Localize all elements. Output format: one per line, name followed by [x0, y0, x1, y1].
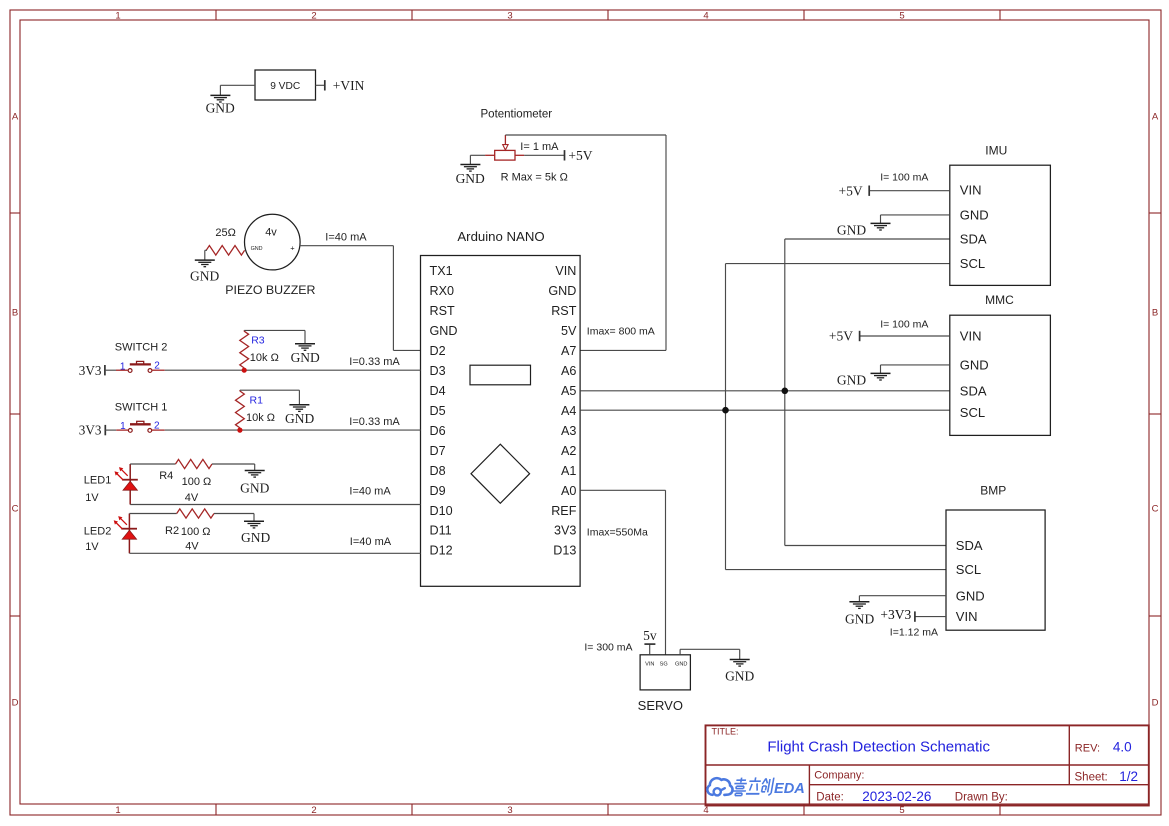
svg-text:10k Ω: 10k Ω [246, 412, 275, 424]
svg-text:RST: RST [430, 304, 455, 318]
REV label and value 4.0 [1075, 740, 1132, 755]
svg-text:+5V: +5V [829, 329, 853, 344]
svg-text:IMU: IMU [985, 143, 1007, 157]
resistor R4 100Ω [176, 459, 213, 468]
value 100 Ω (R4) [182, 476, 212, 488]
svg-text:1/2: 1/2 [1119, 769, 1138, 784]
U1 right pin names VIN-D13 [548, 264, 577, 558]
U1 inner diamond mark [471, 444, 530, 503]
svg-text:4.0: 4.0 [1113, 740, 1132, 755]
value 4V (R4) [185, 492, 199, 504]
svg-text:VIN: VIN [555, 264, 576, 278]
svg-text:100 Ω: 100 Ω [181, 526, 211, 538]
svg-text:GND: GND [960, 207, 989, 222]
svg-text:SERVO: SERVO [638, 698, 683, 713]
svg-text:D6: D6 [430, 424, 446, 438]
Date label and value 2023-02-26 [816, 789, 931, 804]
svg-text:PIEZO BUZZER: PIEZO BUZZER [225, 283, 315, 297]
wire switch 1 to Arduino D6 [165, 429, 421, 431]
svg-text:A0: A0 [561, 484, 576, 498]
svg-text:3: 3 [507, 805, 512, 816]
svg-text:Company:: Company: [814, 770, 864, 782]
svg-text:4: 4 [703, 805, 708, 816]
svg-text:MMC: MMC [985, 293, 1014, 307]
wire IMU GND to ground [881, 215, 950, 224]
net flag +5V (IMU) [839, 183, 870, 198]
svg-text:R4: R4 [159, 470, 173, 482]
Company label [814, 770, 864, 782]
svg-text:1: 1 [120, 421, 126, 432]
resistor R3 10k [240, 330, 249, 368]
Drawn By label [955, 792, 1008, 804]
net flag +5V (MMC) [829, 329, 860, 344]
net flag +3V3 [880, 607, 915, 622]
wire potentiometer left to ground [470, 155, 485, 164]
U4 pin names SDA SCL GND VIN [956, 538, 985, 624]
svg-text:+VIN: +VIN [333, 78, 365, 93]
svg-text:4: 4 [703, 11, 708, 22]
module U2 IMU body [950, 165, 1051, 285]
svg-text:A5: A5 [561, 384, 576, 398]
svg-text:GND: GND [206, 100, 235, 115]
svg-text:VIN: VIN [960, 329, 982, 344]
wire potentiometer wiper to Arduino A7 [505, 135, 666, 350]
designator R2 [165, 525, 179, 537]
wire R1 top to ground [240, 390, 300, 405]
svg-text:D12: D12 [430, 544, 453, 558]
wire Arduino A5 to MMC SDA [580, 390, 950, 392]
svg-text:GND: GND [725, 669, 754, 684]
value I= 300 mA (servo) [584, 641, 632, 653]
wire battery plus to +VIN flag [316, 84, 325, 86]
svg-text:9 VDC: 9 VDC [270, 81, 300, 92]
label MMC [985, 293, 1014, 307]
value 10k Ω (R3) [250, 352, 279, 364]
svg-text:I=0.33 mA: I=0.33 mA [349, 416, 400, 428]
svg-text:C: C [12, 503, 19, 514]
wire SDA bus to IMU and BMP [785, 239, 950, 546]
svg-text:Imax= 800 mA: Imax= 800 mA [587, 326, 655, 338]
ground GND (potentiometer) [456, 165, 485, 187]
value 1V (LED2) [85, 541, 99, 553]
svg-text:A7: A7 [561, 344, 576, 358]
svg-text:5v: 5v [643, 628, 657, 643]
module M1 SERVO body [640, 655, 690, 690]
value 4V (R2) [185, 541, 199, 553]
svg-text:SCL: SCL [960, 256, 985, 271]
svg-text:Arduino NANO: Arduino NANO [457, 229, 544, 244]
value R Max = 5k Ω [501, 172, 568, 184]
svg-text:5V: 5V [561, 324, 577, 338]
ground GND (buzzer) [190, 260, 219, 283]
svg-text:D7: D7 [430, 444, 446, 458]
svg-text:D13: D13 [553, 544, 576, 558]
value I= 100 mA (MMC) [880, 318, 928, 330]
svg-text:B: B [12, 307, 18, 318]
ground GND (R1) [285, 405, 314, 426]
svg-text:D: D [1152, 697, 1159, 708]
value I=1.12 mA (BMP) [890, 626, 938, 638]
svg-text:R1: R1 [250, 394, 264, 406]
wire R3 top to ground [244, 330, 305, 343]
svg-text:A3: A3 [561, 424, 576, 438]
designator R4 [159, 470, 173, 482]
svg-text:Imax=550Ma: Imax=550Ma [587, 527, 648, 539]
svg-text:R Max = 5k Ω: R Max = 5k Ω [501, 172, 568, 184]
label Potentiometer [481, 109, 553, 121]
svg-text:2: 2 [311, 11, 316, 22]
label SWITCH 1 [115, 401, 168, 413]
wire BMP GND to ground [859, 596, 946, 602]
svg-text:2: 2 [311, 805, 316, 816]
S2 pin numbers 1 2 [120, 361, 160, 373]
wire LED1 cathode to Arduino D9 [130, 504, 420, 506]
svg-text:25Ω: 25Ω [215, 227, 235, 239]
svg-text:GND: GND [251, 246, 263, 252]
net flag 5v (servo) [643, 628, 657, 644]
svg-text:+5V: +5V [568, 148, 592, 163]
battery B1 9 VDC [255, 70, 316, 100]
svg-text:100 Ω: 100 Ω [182, 476, 212, 488]
EasyEDA logo text [732, 777, 805, 797]
svg-text:R2: R2 [165, 525, 179, 537]
wire buzzer plus to Arduino D2 [300, 246, 421, 351]
svg-text:GND: GND [845, 612, 874, 627]
value Imax= 800 mA [587, 326, 655, 338]
svg-text:I= 100 mA: I= 100 mA [880, 318, 928, 330]
wire buzzer resistor to ground [205, 250, 207, 260]
module U3 MMC body [950, 315, 1051, 435]
svg-text:3: 3 [507, 11, 512, 22]
title block TITLE label [712, 727, 739, 737]
potentiometer RP1 body [485, 135, 524, 160]
svg-text:SCL: SCL [960, 405, 985, 420]
svg-text:D2: D2 [430, 344, 446, 358]
designator R1 [250, 394, 264, 406]
svg-text:TITLE:: TITLE: [712, 727, 739, 737]
wire +5V to MMC VIN [860, 335, 950, 337]
net flag +5V (potentiometer) [565, 148, 593, 163]
svg-text:GND: GND [456, 171, 485, 186]
svg-text:A1: A1 [561, 464, 576, 478]
label IMU [985, 143, 1007, 157]
wire R4 to ground [212, 464, 255, 471]
svg-text:SG: SG [660, 661, 668, 667]
svg-text:A4: A4 [561, 404, 576, 418]
svg-text:4V: 4V [185, 541, 199, 553]
svg-text:GND: GND [190, 269, 219, 284]
svg-text:Flight Crash Detection Schemat: Flight Crash Detection Schematic [767, 739, 990, 756]
svg-text:GND: GND [675, 661, 687, 667]
svg-text:GND: GND [430, 324, 458, 338]
resistor 25Ω (buzzer) [206, 246, 244, 256]
U3 pin names VIN GND SDA SCL [960, 329, 989, 421]
svg-text:5: 5 [899, 11, 904, 22]
svg-text:GND: GND [291, 350, 320, 365]
svg-text:1V: 1V [85, 541, 99, 553]
svg-text:Potentiometer: Potentiometer [481, 109, 553, 121]
svg-text:LED2: LED2 [84, 526, 112, 538]
svg-text:SWITCH 2: SWITCH 2 [115, 341, 168, 353]
svg-text:A: A [1152, 111, 1159, 122]
svg-text:I=0.33 mA: I=0.33 mA [349, 356, 400, 368]
value 25Ω [215, 227, 235, 239]
svg-text:GND: GND [956, 588, 985, 603]
label Arduino NANO [457, 229, 544, 244]
svg-text:4V: 4V [185, 492, 199, 504]
value I= 1 mA [520, 141, 559, 153]
svg-text:+5V: +5V [839, 183, 863, 198]
junction node R3-D3 [242, 368, 247, 373]
svg-text:GND: GND [548, 284, 576, 298]
led LED1 [115, 464, 138, 505]
label LED2 [84, 526, 112, 538]
svg-text:REV:: REV: [1075, 742, 1100, 754]
svg-text:C: C [1152, 503, 1159, 514]
svg-text:GND: GND [285, 411, 314, 426]
svg-text:SDA: SDA [960, 232, 987, 247]
ground GND (MMC) [837, 372, 891, 387]
svg-text:SCL: SCL [956, 562, 981, 577]
svg-text:5: 5 [899, 805, 904, 816]
svg-text:3V3: 3V3 [79, 423, 102, 438]
ground GND (servo) [725, 660, 754, 684]
svg-text:+3V3: +3V3 [880, 607, 911, 622]
svg-text:I=1.12 mA: I=1.12 mA [890, 626, 938, 638]
svg-text:10k Ω: 10k Ω [250, 352, 279, 364]
ground GND (R2) [241, 521, 270, 545]
value 1V (LED1) [85, 492, 99, 504]
svg-text:GND: GND [837, 222, 866, 237]
ground GND (R3) [291, 344, 320, 365]
value Imax=550Ma [587, 527, 648, 539]
svg-text:EDA: EDA [774, 781, 805, 797]
wire LED2 anode to R2 [129, 513, 176, 515]
svg-text:A6: A6 [561, 364, 576, 378]
svg-text:SDA: SDA [956, 538, 983, 553]
svg-text:I=40 mA: I=40 mA [325, 231, 367, 243]
designator R3 [251, 335, 265, 347]
title text Flight Crash Detection Schematic [767, 739, 990, 756]
U1 inner rectangle mark [470, 365, 531, 385]
wire LED1 anode to R4 [130, 463, 175, 465]
junction node SDA (A5) [782, 388, 789, 395]
svg-text:I= 100 mA: I= 100 mA [880, 172, 928, 184]
wire servo GND to ground [680, 649, 740, 659]
svg-text:BMP: BMP [980, 484, 1006, 498]
svg-text:D8: D8 [430, 464, 446, 478]
S1 pin numbers 1 2 [120, 421, 160, 433]
ground GND (BMP) [845, 602, 874, 627]
net flag 3V3 (switch 1) [79, 423, 106, 438]
svg-text:B: B [1152, 307, 1158, 318]
svg-text:D: D [12, 697, 19, 708]
piezo buzzer LS1 [244, 214, 300, 270]
ground GND (R4) [240, 471, 269, 496]
EasyEDA logo cloud [707, 778, 732, 795]
label LED1 [84, 474, 112, 486]
title block frame [706, 725, 1149, 805]
value I=40 mA (buzzer) [325, 231, 367, 243]
value 100 Ω (R2) [181, 526, 211, 538]
svg-text:I=40 mA: I=40 mA [350, 536, 392, 548]
value I=40 mA (LED1) [349, 485, 391, 497]
resistor R2 100Ω [177, 509, 214, 518]
label BMP [980, 484, 1006, 498]
svg-text:I=40 mA: I=40 mA [349, 485, 391, 497]
svg-text:4v: 4v [265, 226, 277, 238]
U1 left pin names TX1-D12 [430, 264, 458, 558]
svg-text:SDA: SDA [960, 383, 987, 398]
junction node SCL (A4) [722, 407, 729, 414]
svg-text:A2: A2 [561, 444, 576, 458]
wire R2 to ground [214, 514, 254, 522]
svg-text:R3: R3 [251, 335, 265, 347]
ground GND (IMU) [837, 222, 891, 237]
wire MMC GND to ground [881, 365, 950, 374]
module U4 BMP body [946, 510, 1045, 630]
svg-text:RST: RST [551, 304, 576, 318]
svg-text:1V: 1V [85, 492, 99, 504]
svg-text:1: 1 [120, 361, 126, 372]
mcu U1 Arduino NANO body [421, 256, 581, 587]
svg-text:RX0: RX0 [430, 284, 455, 298]
svg-text:Drawn By:: Drawn By: [955, 792, 1008, 804]
wire +3V3 to BMP VIN [915, 616, 946, 618]
svg-text:1: 1 [115, 805, 120, 816]
svg-text:GND: GND [837, 372, 866, 387]
value I=0.33 mA (D6) [349, 416, 400, 428]
svg-text:D3: D3 [430, 364, 446, 378]
svg-text:3V3: 3V3 [79, 363, 102, 378]
svg-text:D11: D11 [430, 524, 452, 538]
svg-text:LED1: LED1 [84, 474, 112, 486]
svg-text:D5: D5 [430, 404, 446, 418]
led LED2 [114, 514, 137, 554]
svg-text:1: 1 [115, 11, 120, 22]
resistor R1 10k [236, 390, 245, 428]
wire potentiometer right to +5V flag [524, 154, 564, 156]
wire Arduino A0 to servo SG [580, 490, 665, 655]
net flag +VIN [325, 78, 365, 93]
wire Arduino A4 to MMC SCL [580, 409, 950, 411]
net flag 3V3 (switch 2) [79, 363, 105, 378]
svg-text:2023-02-26: 2023-02-26 [862, 789, 931, 804]
svg-text:VIN: VIN [960, 183, 982, 198]
M1 pin labels VIN SG GND [645, 661, 687, 667]
ground GND (battery) [206, 95, 235, 115]
value 10k Ω (R1) [246, 412, 275, 424]
svg-text:REF: REF [551, 504, 576, 518]
junction node R1-D6 [237, 428, 242, 433]
value I=40 mA (LED2) [350, 536, 392, 548]
switch S2 pushbutton [105, 361, 165, 372]
wire +5V to IMU VIN [869, 190, 950, 192]
svg-text:GND: GND [241, 530, 270, 545]
label PIEZO BUZZER [225, 283, 315, 297]
label SERVO [638, 698, 683, 713]
svg-text:TX1: TX1 [430, 264, 453, 278]
wire servo VIN to 5v flag [649, 644, 651, 655]
svg-text:VIN: VIN [645, 661, 654, 667]
value I= 100 mA (IMU) [880, 172, 928, 184]
value I=0.33 mA (D3) [349, 356, 400, 368]
svg-text:VIN: VIN [956, 609, 978, 624]
svg-text:2: 2 [154, 421, 160, 432]
svg-text:GND: GND [240, 481, 269, 496]
svg-text:D9: D9 [430, 484, 446, 498]
svg-text:GND: GND [960, 357, 989, 372]
svg-text:D10: D10 [430, 504, 453, 518]
svg-text:I= 1 mA: I= 1 mA [520, 141, 559, 153]
svg-text:Date:: Date: [816, 792, 844, 804]
wire battery minus to ground [220, 85, 255, 95]
U2 pin names VIN GND SDA SCL [960, 183, 989, 272]
svg-text:3V3: 3V3 [554, 524, 576, 538]
svg-text:Sheet:: Sheet: [1075, 772, 1108, 784]
svg-text:+: + [290, 244, 295, 253]
Sheet label and value 1/2 [1075, 769, 1138, 784]
switch S1 pushbutton [105, 421, 164, 432]
wire SCL bus to IMU and BMP [726, 264, 950, 570]
svg-text:I= 300 mA: I= 300 mA [584, 641, 632, 653]
svg-text:2: 2 [154, 361, 160, 372]
wire switch 2 to Arduino D3 [165, 369, 421, 371]
svg-text:SWITCH 1: SWITCH 1 [115, 401, 168, 413]
label SWITCH 2 [115, 341, 168, 353]
svg-text:A: A [12, 111, 19, 122]
wire LED2 cathode to Arduino D12 [129, 552, 420, 554]
svg-text:D4: D4 [430, 384, 446, 398]
